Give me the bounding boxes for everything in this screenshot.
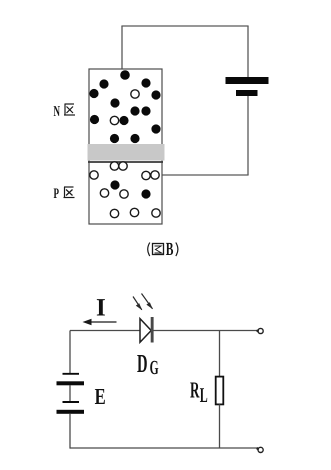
svg-text:G: G (150, 357, 159, 379)
wire battery top lead (247, 26, 249, 78)
resistor RL branch lower wire (219, 404, 221, 448)
battery B1 short plate (236, 90, 258, 96)
label L subscript (200, 383, 208, 407)
battery B1 long plate (226, 77, 269, 84)
current arrow (83, 319, 117, 325)
top wire (70, 330, 258, 332)
wire junction dot top (256, 330, 259, 333)
svg-text:N: N (54, 104, 61, 120)
svg-text:L: L (200, 383, 208, 407)
battery E long thick plate 1 (57, 381, 85, 385)
wire to P region (161, 174, 249, 176)
svg-text:E: E (95, 384, 106, 409)
bottom wire (70, 447, 258, 449)
label P (54, 186, 60, 202)
svg-text:I: I (96, 295, 106, 322)
label E (95, 384, 106, 409)
wire top horizontal bus (121, 25, 248, 27)
battery E short thin plate 1 (63, 373, 80, 375)
left vertical wire (69, 331, 71, 375)
label D (137, 349, 148, 378)
svg-text:R: R (190, 378, 200, 403)
electrons N region (filled) (90, 71, 160, 143)
svg-text:P: P (54, 186, 60, 202)
battery E short thin plate 2 (63, 401, 80, 403)
battery bottom lead (69, 414, 71, 449)
output terminal top (258, 328, 263, 333)
wire battery bottom lead (247, 96, 249, 175)
PN junction box (89, 69, 162, 224)
holes in N region (open) (110, 90, 139, 125)
photodiode DG cathode bar (151, 317, 154, 343)
battery E long thick plate 2 (57, 410, 85, 414)
resistor RL body (216, 377, 224, 405)
svg-text:B: B (166, 240, 174, 260)
label G subscript (150, 357, 159, 379)
wire junction dot bottom (256, 447, 259, 450)
output terminal bottom (258, 447, 263, 452)
light arrow 1 (133, 297, 142, 311)
holes P region (open) (90, 162, 160, 218)
P region top edge (88, 161, 163, 163)
label N (54, 104, 61, 120)
wire top-left vertical (box to top bus) (121, 26, 123, 70)
battery E mid wire (69, 385, 71, 402)
electrons in P region (filled) (111, 181, 150, 198)
photodiode DG triangle (140, 319, 151, 343)
depletion band (88, 144, 165, 161)
label 区 (P region) (64, 187, 75, 198)
label R (190, 378, 200, 403)
resistor RL branch upper wire (219, 331, 221, 378)
caption (图B) (148, 243, 178, 257)
label 区 (N region) (64, 104, 75, 115)
svg-text:D: D (137, 349, 148, 378)
light arrow 2 (142, 294, 153, 310)
